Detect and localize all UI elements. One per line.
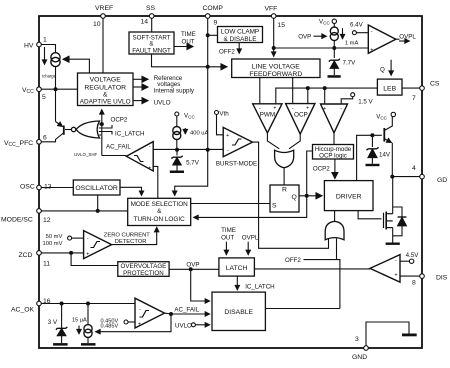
svg-text:OVP: OVP (298, 34, 311, 41)
svg-text:OVPL: OVPL (399, 34, 416, 41)
svg-text:PROTECTION: PROTECTION (123, 270, 164, 277)
svg-text:+: + (148, 166, 151, 172)
svg-text:DISABLE: DISABLE (224, 309, 253, 316)
svg-text:3: 3 (355, 336, 359, 343)
svg-text:+: + (394, 273, 397, 279)
svg-text:UVLO_SHF: UVLO_SHF (74, 152, 97, 157)
svg-text:+: + (138, 322, 141, 328)
svg-text:Internal supply: Internal supply (154, 88, 195, 95)
svg-text:-: - (259, 106, 261, 112)
svg-text:IC_LATCH: IC_LATCH (245, 284, 274, 291)
svg-text:11: 11 (43, 261, 50, 268)
svg-text:OVPL: OVPL (242, 235, 259, 242)
svg-text:DRIVER: DRIVER (336, 193, 362, 200)
svg-text:VCC: VCC (184, 113, 195, 120)
svg-text:LINE VOLTAGE: LINE VOLTAGE (252, 64, 301, 71)
svg-text:MODE SELECTION: MODE SELECTION (131, 201, 189, 208)
svg-text:+: + (306, 106, 309, 112)
svg-text:OUT: OUT (221, 235, 234, 242)
svg-text:Q: Q (380, 67, 385, 74)
svg-text:-: - (139, 307, 141, 313)
svg-text:TIME: TIME (221, 227, 236, 234)
svg-text:14: 14 (141, 19, 149, 26)
svg-text:IC_LATCH: IC_LATCH (115, 131, 144, 138)
svg-text:+: + (86, 252, 89, 258)
svg-text:13: 13 (44, 184, 52, 191)
svg-text:Vth: Vth (219, 111, 229, 118)
svg-text:7.7V: 7.7V (343, 60, 357, 67)
svg-text:6.4V: 6.4V (350, 22, 364, 29)
svg-text:OSC: OSC (20, 184, 35, 191)
svg-text:FAULT MNGT: FAULT MNGT (132, 48, 171, 55)
svg-text:OFF2: OFF2 (219, 49, 235, 56)
svg-text:OSCILLATOR: OSCILLATOR (75, 185, 118, 192)
svg-text:+: + (323, 106, 326, 112)
svg-text:4.5V: 4.5V (406, 252, 420, 259)
svg-text:GND: GND (352, 354, 367, 361)
svg-text:OUT: OUT (182, 39, 195, 46)
svg-text:-: - (371, 29, 373, 35)
svg-text:BURST-MODE: BURST-MODE (216, 161, 257, 168)
svg-text:OCP logic: OCP logic (319, 153, 347, 160)
svg-text:3 V: 3 V (48, 319, 58, 326)
svg-text:UVLO: UVLO (154, 100, 171, 107)
svg-text:-: - (149, 144, 151, 150)
svg-text:100 mV: 100 mV (43, 241, 63, 247)
svg-text:+: + (273, 106, 276, 112)
svg-text:AC_OK: AC_OK (11, 307, 35, 314)
svg-text:PWM: PWM (260, 112, 276, 119)
svg-text:8: 8 (412, 280, 416, 287)
svg-text:&: & (157, 208, 162, 215)
svg-text:10: 10 (93, 21, 101, 28)
svg-text:14V: 14V (379, 152, 391, 159)
svg-text:VCC: VCC (22, 87, 34, 95)
svg-text:4: 4 (412, 165, 416, 172)
svg-text:SS: SS (146, 5, 156, 12)
svg-text:COMP: COMP (203, 5, 224, 12)
svg-text:ZCD: ZCD (19, 252, 33, 259)
svg-text:AC_FAIL: AC_FAIL (174, 307, 199, 314)
svg-text:DETECTOR: DETECTOR (115, 239, 147, 245)
svg-text:ADAPTIVE UVLO: ADAPTIVE UVLO (80, 99, 131, 106)
svg-text:1: 1 (43, 37, 47, 44)
svg-text:OCP: OCP (294, 112, 308, 119)
svg-text:-: - (87, 236, 89, 242)
svg-text:GD: GD (437, 177, 447, 184)
svg-text:LEB: LEB (383, 86, 396, 93)
svg-text:5.7V: 5.7V (186, 160, 200, 167)
svg-text:REGULATOR: REGULATOR (84, 85, 126, 92)
svg-text:R: R (282, 187, 287, 194)
svg-text:400 uA: 400 uA (190, 131, 209, 137)
svg-text:ZERO CURRENT: ZERO CURRENT (104, 233, 151, 239)
svg-text:9: 9 (214, 20, 218, 27)
svg-text:12: 12 (43, 217, 51, 224)
svg-text:VFF: VFF (265, 6, 278, 13)
svg-text:16: 16 (43, 298, 51, 305)
svg-text:S: S (272, 203, 277, 210)
svg-text:6: 6 (43, 135, 47, 142)
svg-text:DIS: DIS (436, 275, 448, 282)
svg-text:LOW CLAMP: LOW CLAMP (221, 29, 259, 36)
svg-text:TIME: TIME (181, 31, 196, 38)
svg-text:LATCH: LATCH (226, 265, 248, 272)
svg-text:VCC: VCC (376, 114, 387, 121)
svg-text:VOLTAGE: VOLTAGE (90, 77, 122, 84)
svg-text:TURN-ON LOGIC: TURN-ON LOGIC (134, 216, 186, 223)
svg-text:VREF: VREF (95, 5, 113, 12)
svg-text:MODE/SC: MODE/SC (1, 217, 33, 224)
svg-text:15 µA: 15 µA (72, 318, 87, 324)
svg-text:& DISABLE: & DISABLE (223, 36, 256, 43)
svg-text:FEEDFORWARD: FEEDFORWARD (249, 71, 302, 78)
svg-text:Icharge: Icharge (42, 74, 57, 79)
svg-text:7: 7 (412, 95, 416, 102)
svg-text:1 mA: 1 mA (345, 41, 359, 47)
svg-text:Q: Q (292, 194, 297, 201)
svg-text:+: + (226, 133, 229, 139)
svg-text:15: 15 (278, 22, 286, 29)
svg-text:50 mV: 50 mV (46, 234, 63, 240)
svg-text:VCC_PFC: VCC_PFC (4, 140, 33, 148)
svg-text:OCP2: OCP2 (313, 166, 330, 173)
svg-text:&: & (103, 92, 108, 99)
svg-text:+: + (370, 48, 373, 54)
svg-text:UVLO: UVLO (175, 323, 192, 330)
svg-text:-: - (227, 148, 229, 154)
svg-text:VCC: VCC (319, 19, 330, 26)
svg-text:-: - (395, 258, 397, 264)
svg-text:1.5 V: 1.5 V (358, 99, 373, 106)
svg-text:HV: HV (24, 43, 34, 50)
svg-text:OCP2: OCP2 (111, 117, 128, 124)
svg-text:OFF2: OFF2 (285, 257, 301, 264)
svg-text:5: 5 (42, 94, 46, 101)
svg-text:-: - (292, 106, 294, 112)
svg-text:OVP: OVP (186, 262, 199, 269)
svg-text:0.485V: 0.485V (101, 324, 119, 330)
svg-text:AC_FAIL: AC_FAIL (106, 144, 131, 151)
svg-text:CS: CS (430, 81, 440, 88)
svg-text:-: - (340, 106, 342, 112)
